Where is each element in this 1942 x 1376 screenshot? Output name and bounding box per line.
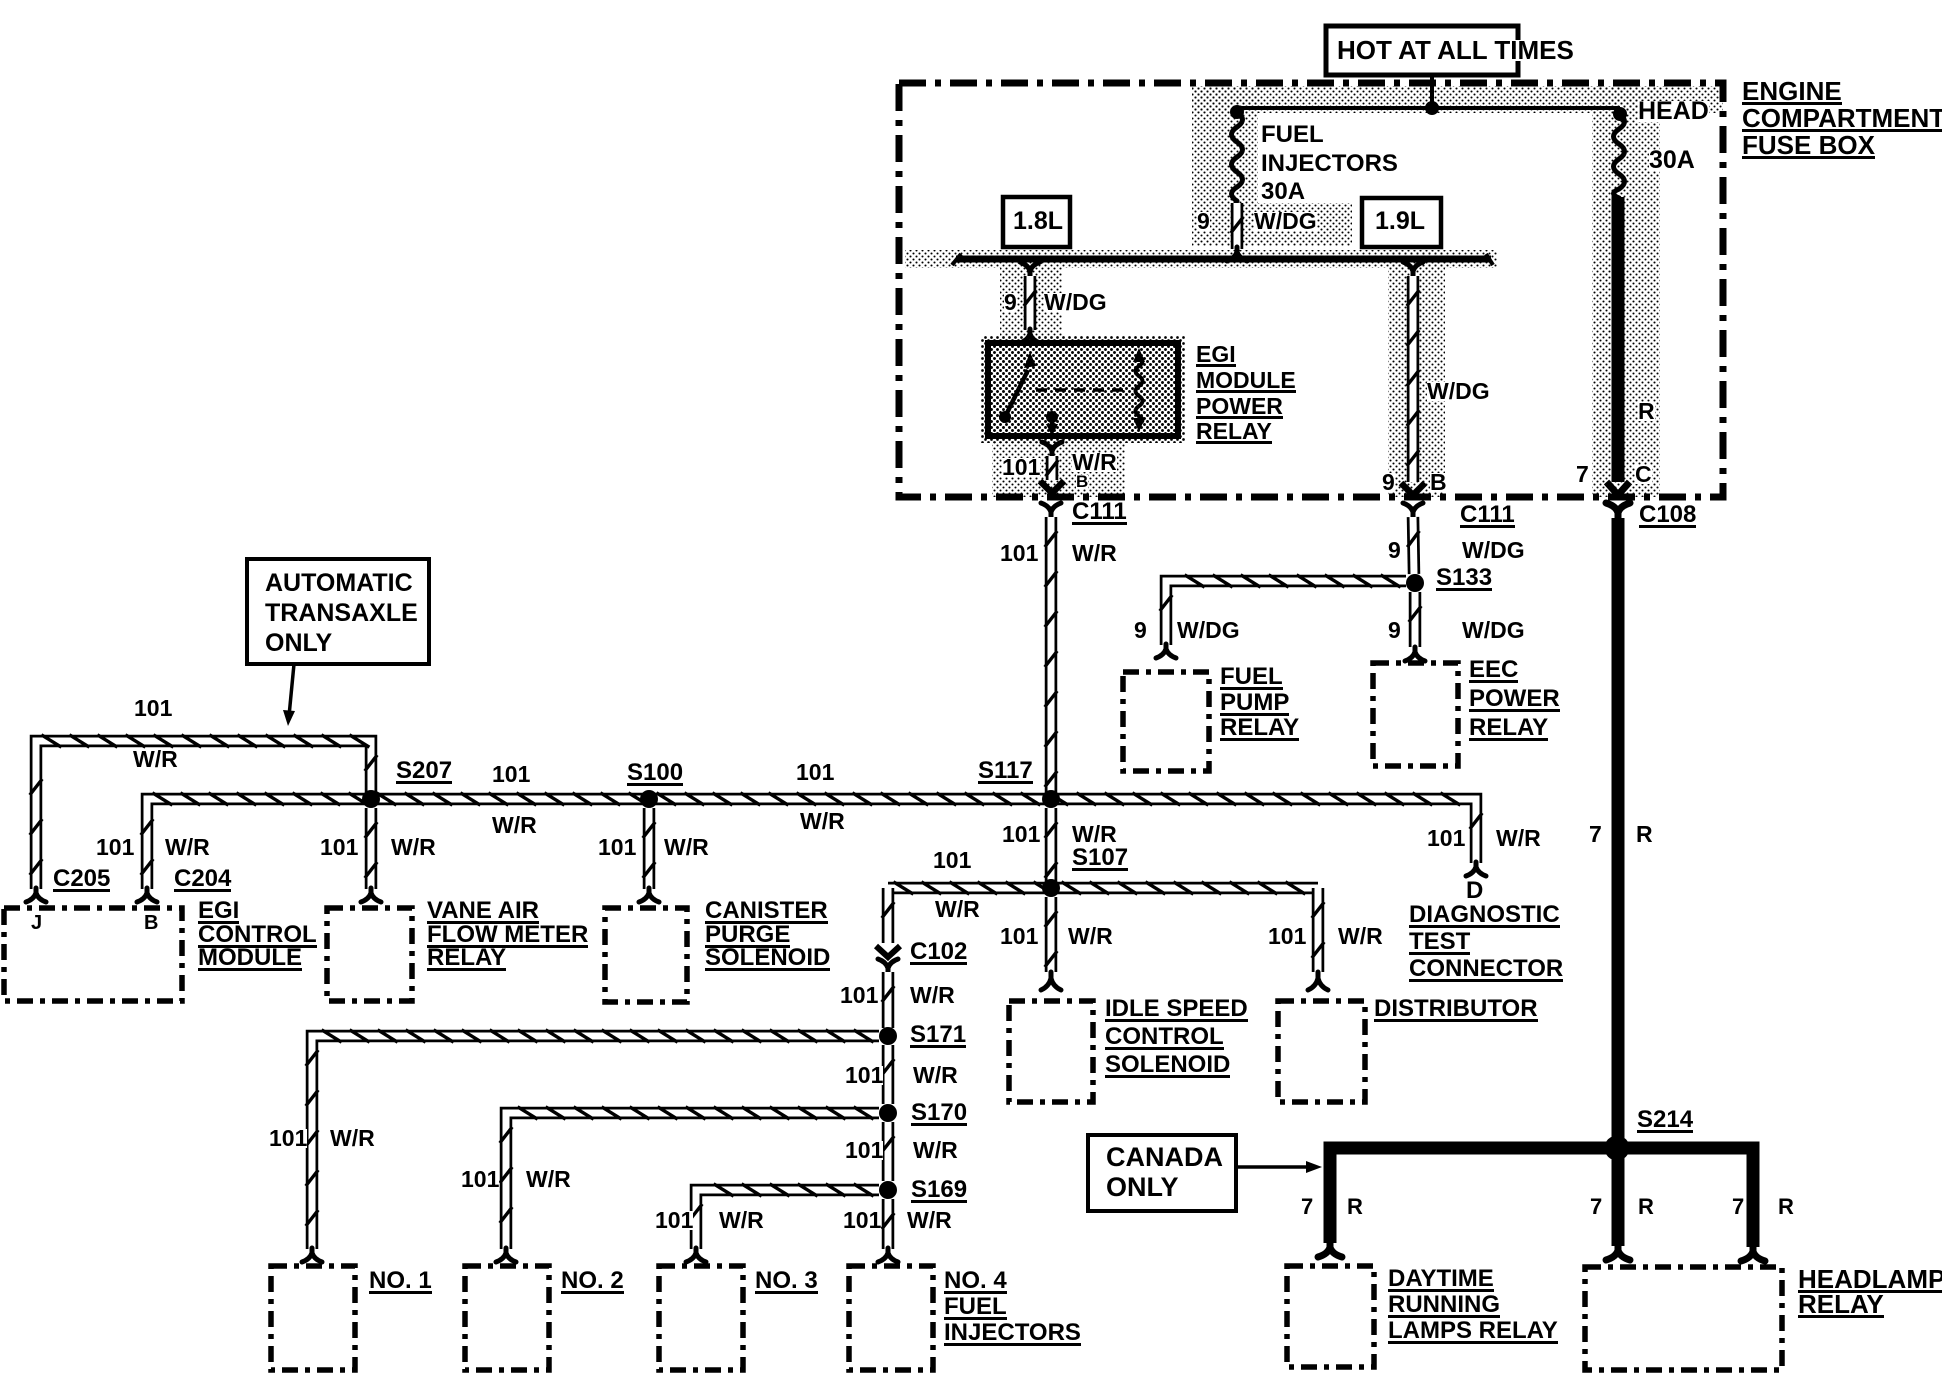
- label 101: [840, 986, 878, 1005]
- fuse HEAD 30A: [1614, 114, 1625, 198]
- label CONTROL: [198, 925, 317, 948]
- splice S169: [879, 1181, 897, 1199]
- splice S133: [1406, 574, 1424, 592]
- label S117: [978, 761, 1033, 784]
- label 101: [96, 838, 134, 857]
- label W/R: [913, 1141, 958, 1160]
- connector C108 upper half: [1607, 482, 1630, 495]
- label W/DG: [1254, 212, 1317, 231]
- label 101: [269, 1129, 307, 1148]
- label J: [31, 915, 42, 931]
- label W/R: [910, 986, 955, 1005]
- label TRANSAXLE: [265, 603, 418, 624]
- label W/R: [1072, 544, 1117, 563]
- label CANADA: [1106, 1146, 1223, 1168]
- wire from HOT AT ALL TIMES into fuse box: [1430, 74, 1434, 108]
- label 30A: [1261, 182, 1305, 202]
- node head fuse top: [1613, 107, 1627, 121]
- connector C111 lower half: [1041, 503, 1061, 517]
- label D: [1466, 881, 1483, 901]
- label W/R: [913, 1066, 958, 1085]
- label RELAY: [1469, 718, 1548, 741]
- wire wire 101 W/R S169 to no.3 injector: [690, 1184, 879, 1249]
- terminal at bus bar (fuel fuse): [1227, 247, 1247, 261]
- label ENGINE: [1742, 81, 1842, 105]
- label EEC: [1469, 660, 1518, 683]
- terminal at no.4 fuel injector: [878, 1248, 898, 1262]
- label POWER: [1196, 397, 1283, 419]
- label R: [1778, 1198, 1794, 1216]
- label 9: [1004, 293, 1017, 312]
- engine compartment fuse box border: [899, 83, 1723, 497]
- wire wire 101 W/R S171 to no.1 injector: [306, 1030, 879, 1249]
- label VANE AIR: [427, 901, 539, 924]
- label FLOW METER: [427, 925, 588, 948]
- label 101: [492, 765, 530, 784]
- label 101: [1002, 458, 1040, 477]
- wire wire 9 W/DG C111 to S133: [1407, 517, 1419, 574]
- label 101: [843, 1211, 881, 1230]
- connector C111 right lower half: [1403, 503, 1423, 517]
- label RELAY: [1220, 718, 1299, 741]
- label W/R: [526, 1170, 571, 1189]
- connector C102 upper half: [876, 946, 900, 957]
- label PURGE: [705, 925, 790, 948]
- relay dashed link: [1036, 388, 1126, 392]
- fuse FUEL INJECTORS 30A: [1232, 112, 1243, 201]
- label C111: [1460, 505, 1515, 528]
- label W/R: [165, 838, 210, 857]
- splice S214: [1605, 1136, 1630, 1161]
- label IDLE SPEED: [1105, 999, 1248, 1022]
- label W/R: [1068, 927, 1113, 946]
- label W/DG: [1427, 382, 1490, 401]
- label INJECTORS: [1261, 154, 1398, 174]
- terminal at headlamp relay (right): [1741, 1246, 1765, 1261]
- callout box HOT AT ALL TIMES: [1326, 26, 1518, 75]
- wire wire 101 W/R S169 to no.4 injector: [882, 1199, 894, 1249]
- terminal under bus bar (1.9L): [1403, 262, 1423, 276]
- label S170: [911, 1103, 967, 1126]
- component box EGI CONTROL MODULE: [4, 908, 182, 1001]
- relay coil: [1133, 348, 1145, 432]
- component box IDLE SPEED CONTROL SOLENOID: [1009, 1001, 1093, 1102]
- label B: [1076, 475, 1088, 489]
- splice S100: [640, 790, 658, 808]
- splice S171: [879, 1027, 897, 1045]
- label 101: [1268, 927, 1306, 946]
- label 101: [1002, 825, 1040, 844]
- wire fuel injector fuse to bus (W/DG): [1231, 203, 1243, 249]
- terminal under bus bar (1.8L): [1020, 262, 1040, 276]
- terminal at daytime running lamps relay: [1318, 1242, 1342, 1257]
- wire wire W/DG bus to C111 right: [1407, 276, 1419, 482]
- label R: [1638, 1198, 1654, 1216]
- label HOT AT ALL TIMES: [1337, 40, 1574, 61]
- label FUEL: [1220, 667, 1283, 690]
- wire wire 101 W/R automatic transaxle loop: [30, 735, 377, 889]
- label W/R: [492, 816, 537, 835]
- label POWER: [1469, 689, 1560, 712]
- label DISTRIBUTOR: [1374, 999, 1538, 1022]
- label S169: [911, 1180, 967, 1203]
- label COMPARTMENT: [1742, 108, 1942, 132]
- label W/DG: [1044, 293, 1107, 312]
- label NO. 1: [369, 1271, 432, 1294]
- label 9: [1388, 541, 1401, 560]
- label 101: [845, 1066, 883, 1085]
- label B: [144, 915, 158, 931]
- label 7: [1576, 465, 1589, 484]
- label 1.9L: [1375, 211, 1425, 232]
- label 101: [461, 1170, 499, 1189]
- wire wire 101 W/R S207 to vane air flow meter relay: [365, 808, 377, 889]
- node feed junction: [1425, 101, 1439, 115]
- label S133: [1436, 568, 1492, 591]
- component box VANE AIR FLOW METER RELAY: [327, 908, 412, 1001]
- bus bar (1.8L/1.9L selector): [952, 254, 1493, 265]
- label HEAD: [1638, 101, 1709, 122]
- connector C111 upper half: [1040, 481, 1064, 493]
- label 101: [134, 699, 172, 718]
- label W/DG: [1462, 541, 1525, 560]
- wire wire 101 W/R C111 to S117: [1045, 517, 1057, 799]
- label W/R: [391, 838, 436, 857]
- label C111: [1072, 502, 1127, 525]
- label W/R: [935, 900, 980, 919]
- box 1.9L: [1362, 198, 1441, 247]
- label C204: [174, 869, 231, 892]
- label 7: [1589, 825, 1602, 844]
- label 101: [1000, 927, 1038, 946]
- label CONNECTOR: [1409, 959, 1563, 982]
- component box CANISTER PURGE SOLENOID: [605, 908, 687, 1002]
- label W/R: [1496, 829, 1541, 848]
- label CONTROL: [1105, 1027, 1224, 1050]
- shade relay output patch: [992, 440, 1125, 497]
- label W/DG: [1177, 621, 1240, 640]
- label 101: [598, 838, 636, 857]
- shade fuel fuse column: [1192, 86, 1258, 246]
- terminal at idle speed control solenoid: [1041, 972, 1061, 990]
- label 30A: [1649, 150, 1695, 171]
- wire wire 101 W/R S170 to S169: [882, 1122, 894, 1181]
- label FUSE BOX: [1742, 135, 1875, 159]
- terminal at EGI relay top: [1020, 329, 1040, 343]
- terminal C205 at EGI control module: [26, 888, 46, 902]
- arrow from canada only callout: [1236, 1161, 1322, 1173]
- label 1.8L: [1013, 211, 1063, 232]
- label 9: [1134, 621, 1147, 640]
- terminal C204 at EGI control module: [137, 888, 157, 902]
- wire wire 101 W/R relay to C111: [1046, 456, 1058, 480]
- label W/R: [330, 1129, 375, 1148]
- label W/R: [1072, 825, 1117, 844]
- label LAMPS RELAY: [1388, 1321, 1558, 1344]
- component box NO. 4 FUEL INJECTOR: [849, 1266, 933, 1370]
- label NO. 4: [944, 1271, 1007, 1294]
- wire wire 101 W/R S117 to S107: [1045, 808, 1057, 888]
- label 101: [845, 1141, 883, 1160]
- shade bus bar band: [905, 250, 1497, 268]
- wire wire R head fuse to C108: [1612, 197, 1625, 482]
- label C: [1635, 465, 1652, 484]
- arrow from automatic transaxle callout: [283, 664, 295, 726]
- terminal at distributor: [1308, 972, 1328, 990]
- label 101: [796, 763, 834, 782]
- label 101: [1427, 829, 1465, 848]
- wire wire R C108 to S214: [1612, 518, 1625, 1148]
- wire wire 101 W/R S107 to C102: [882, 888, 894, 943]
- component box DAYTIME RUNNING LAMPS RELAY: [1287, 1266, 1374, 1367]
- component box FUEL PUMP RELAY: [1123, 672, 1209, 771]
- label R: [1347, 1198, 1363, 1216]
- label SOLENOID: [705, 948, 830, 971]
- label RELAY: [1196, 422, 1272, 444]
- label 9: [1197, 212, 1210, 231]
- label 101: [933, 851, 971, 870]
- label 101: [320, 838, 358, 857]
- label HEADLAMP: [1798, 1269, 1942, 1293]
- splice S107: [1042, 879, 1060, 897]
- shade 1.9L wire column: [1388, 250, 1445, 497]
- label FUEL: [944, 1297, 1007, 1320]
- label R: [1638, 402, 1655, 421]
- label MODULE: [1196, 371, 1296, 393]
- label AUTOMATIC: [265, 573, 413, 594]
- label W/R: [664, 838, 709, 857]
- wire wire 101 W/R S107 to idle speed control solenoid: [1045, 897, 1057, 972]
- wire wire 101 W/R main row: [141, 793, 1482, 889]
- component box DISTRIBUTOR: [1278, 1001, 1365, 1102]
- label C102: [910, 942, 967, 965]
- label NO. 3: [755, 1271, 818, 1294]
- connector C111 right upper half: [1401, 483, 1425, 495]
- label RUNNING: [1388, 1295, 1500, 1318]
- wire wire 101 W/R S171 to S170: [882, 1045, 894, 1104]
- label C205: [53, 869, 110, 892]
- label S100: [627, 763, 683, 786]
- wire wire 9 W/DG S133 to EEC power relay: [1409, 592, 1421, 647]
- label 9: [1382, 473, 1395, 492]
- label S214: [1637, 1110, 1693, 1133]
- terminal at EEC power relay: [1405, 647, 1425, 661]
- wire wire 101 W/R S100 to canister purge solenoid: [643, 808, 655, 889]
- splice S170: [879, 1104, 897, 1122]
- label DAYTIME: [1388, 1269, 1494, 1292]
- wire wire R S214 to daytime running lamps relay: [1330, 1148, 1611, 1243]
- shade HEAD fuse column: [1592, 86, 1660, 497]
- label 101: [1000, 544, 1038, 563]
- relay switch arm: [999, 352, 1058, 436]
- label B: [1430, 473, 1447, 492]
- label RELAY: [1798, 1294, 1884, 1318]
- component box NO. 2 FUEL INJECTOR: [465, 1266, 549, 1370]
- label MODULE: [198, 948, 302, 971]
- terminal at no.1 fuel injector: [302, 1248, 322, 1262]
- wire wire R S214 down to headlamp relay: [1612, 1148, 1625, 1246]
- label EGI: [1196, 345, 1236, 367]
- wire wire 9 W/DG bus to EGI relay: [1024, 276, 1036, 330]
- label C108: [1639, 505, 1696, 528]
- splice S117: [1042, 790, 1060, 808]
- label W/R: [907, 1211, 952, 1230]
- label S107: [1072, 848, 1128, 871]
- callout box AUTOMATIC TRANSAXLE ONLY: [247, 559, 429, 664]
- terminal D at diagnostic test connector: [1466, 862, 1486, 876]
- component box HEADLAMP RELAY: [1585, 1267, 1782, 1370]
- shade top band: [1192, 86, 1723, 113]
- wire wire R S214 right branch to headlamp relay: [1618, 1148, 1753, 1247]
- label W/R: [133, 750, 178, 769]
- terminal at fuel pump relay: [1156, 644, 1176, 658]
- label RELAY: [427, 948, 506, 971]
- shade relay feed column: [1000, 268, 1062, 343]
- label 7: [1732, 1198, 1744, 1216]
- wire wire 101 W/R C102 to S171: [882, 972, 894, 1028]
- component box EEC POWER RELAY: [1373, 663, 1458, 766]
- label SOLENOID: [1105, 1055, 1230, 1078]
- label S207: [396, 761, 452, 784]
- label R: [1636, 825, 1653, 844]
- node fuel injectors fuse top: [1230, 105, 1244, 119]
- label 7: [1301, 1198, 1313, 1216]
- shade W/DG label patch: [1258, 203, 1352, 246]
- terminal at headlamp relay (center): [1606, 1245, 1630, 1260]
- terminal at no.3 fuel injector: [686, 1248, 706, 1262]
- label 7: [1590, 1198, 1602, 1216]
- terminal at canister purge solenoid: [639, 888, 659, 902]
- wire top feed bus: [1237, 106, 1620, 110]
- terminal under EGI relay: [1042, 442, 1062, 456]
- label W/R: [1338, 927, 1383, 946]
- label W/R: [1072, 453, 1117, 472]
- component box NO. 3 FUEL INJECTOR: [659, 1266, 743, 1370]
- label W/DG: [1462, 621, 1525, 640]
- splice S207: [362, 790, 380, 808]
- wire wire 101 W/R S107 to distributor: [1312, 888, 1324, 972]
- wire wire 101 W/R S107 row: [888, 882, 1318, 894]
- label FUEL: [1261, 125, 1324, 145]
- shade relay ring: [981, 336, 1185, 443]
- wire wire 101 W/R S170 to no.2 injector: [500, 1107, 879, 1249]
- connector C102 lower half: [878, 959, 898, 973]
- label ONLY: [1106, 1176, 1179, 1198]
- label 9: [1388, 621, 1401, 640]
- component box NO. 1 FUEL INJECTOR: [271, 1266, 355, 1370]
- box 1.8L: [1003, 197, 1070, 247]
- terminal at no.2 fuel injector: [496, 1248, 516, 1262]
- connector C108 lower half: [1606, 503, 1630, 518]
- wire wire 9 W/DG S133 branch to fuel pump relay: [1160, 575, 1406, 645]
- label NO. 2: [561, 1271, 624, 1294]
- label PUMP: [1220, 693, 1289, 716]
- terminal at vane air flow meter relay: [361, 888, 381, 902]
- label W/R: [800, 812, 845, 831]
- label 101: [655, 1211, 693, 1230]
- relay box EGI MODULE POWER RELAY: [988, 343, 1178, 436]
- label ONLY: [265, 633, 332, 654]
- callout box CANADA ONLY: [1088, 1135, 1236, 1211]
- label S171: [910, 1025, 966, 1048]
- label TEST: [1409, 932, 1470, 955]
- label INJECTORS: [944, 1323, 1081, 1346]
- label DIAGNOSTIC: [1409, 905, 1560, 928]
- label CANISTER: [705, 901, 828, 924]
- label W/R: [719, 1211, 764, 1230]
- label EGI: [198, 901, 239, 924]
